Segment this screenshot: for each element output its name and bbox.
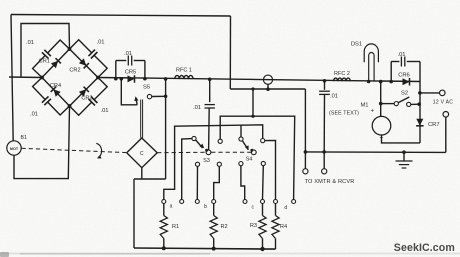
- svg-text:DS1: DS1: [351, 42, 362, 48]
- svg-text:TO XMTR & RCVR: TO XMTR & RCVR: [305, 179, 355, 185]
- svg-text:+: +: [370, 108, 374, 115]
- svg-text:CR7: CR7: [428, 122, 440, 128]
- svg-text:SeekIC.com: SeekIC.com: [394, 242, 455, 254]
- svg-text:12 V AC: 12 V AC: [433, 99, 454, 105]
- svg-text:CR1: CR1: [39, 59, 50, 65]
- svg-text:R4: R4: [280, 224, 287, 230]
- svg-text:R3: R3: [250, 223, 257, 229]
- svg-text:.01: .01: [30, 112, 38, 118]
- svg-text:.01: .01: [397, 52, 405, 58]
- svg-text:.01: .01: [124, 51, 132, 57]
- svg-text:.01: .01: [96, 40, 104, 46]
- svg-text:.01: .01: [26, 40, 34, 46]
- svg-text:M1: M1: [360, 103, 368, 109]
- svg-text:.01: .01: [330, 94, 338, 100]
- svg-text:S5: S5: [143, 85, 150, 91]
- svg-text:C: C: [140, 151, 144, 157]
- svg-text:B1: B1: [21, 135, 27, 141]
- svg-text:MOT: MOT: [10, 147, 19, 151]
- svg-text:CR2: CR2: [69, 68, 80, 74]
- svg-text:(SEE TEXT): (SEE TEXT): [329, 111, 359, 117]
- svg-text:CR5: CR5: [125, 70, 137, 76]
- svg-text:S2: S2: [401, 91, 408, 97]
- svg-text:.01: .01: [193, 105, 201, 111]
- svg-text:RFC 2: RFC 2: [334, 71, 350, 77]
- svg-text:S4: S4: [246, 157, 253, 163]
- svg-text:b: b: [204, 204, 207, 210]
- svg-text:d: d: [284, 205, 287, 211]
- svg-text:CR6: CR6: [398, 73, 410, 79]
- svg-text:CR4: CR4: [50, 83, 61, 89]
- svg-text:R2: R2: [221, 224, 228, 230]
- svg-text:.01: .01: [100, 108, 108, 114]
- svg-text:CR3: CR3: [81, 95, 92, 101]
- svg-text:R1: R1: [172, 224, 179, 230]
- svg-text:RFC 1: RFC 1: [176, 68, 192, 74]
- svg-text:S3: S3: [203, 158, 210, 164]
- svg-text:a: a: [170, 204, 173, 210]
